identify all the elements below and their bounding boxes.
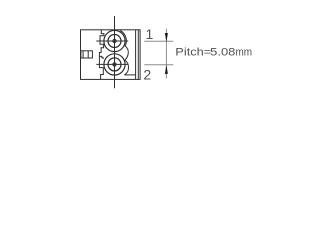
- svg-text:5.08: 5.08: [210, 46, 235, 58]
- horizontal centerline pin 2: [96, 63, 128, 65]
- screw center mark pin 1: [113, 39, 116, 42]
- dimension arrow top: [165, 33, 168, 42]
- claw zigzag wall: [99, 30, 104, 79]
- terminal block body outline: [81, 30, 141, 80]
- extension line pin 2: [144, 64, 173, 66]
- horizontal centerline pin 1: [96, 40, 128, 42]
- neck curve between pins right side: [120, 31, 128, 75]
- vertical centerline: [114, 16, 116, 88]
- right rail line inner: [135, 30, 137, 79]
- claw tab between pins: [99, 56, 103, 59]
- svg-text:2: 2: [143, 66, 151, 82]
- screw circle middle pin 1: [108, 35, 121, 48]
- extension line pin 1: [144, 40, 173, 42]
- chamber floor tangent line: [124, 74, 135, 76]
- screw circle outer pin 1: [104, 30, 125, 51]
- screw center mark pin 2: [113, 63, 116, 66]
- screw circle middle pin 2: [108, 58, 121, 71]
- svg-text:mm: mm: [236, 46, 253, 58]
- dimension arrow bottom: [165, 65, 168, 74]
- svg-text:1: 1: [146, 26, 154, 42]
- svg-text:Pitch=: Pitch=: [175, 46, 211, 58]
- right rail line outer: [137, 30, 139, 79]
- screw circle outer pin 2: [104, 54, 125, 75]
- side latch rectangle: [81, 51, 93, 58]
- latch divider lines: [83, 51, 88, 58]
- dimension vertical line: [165, 29, 167, 79]
